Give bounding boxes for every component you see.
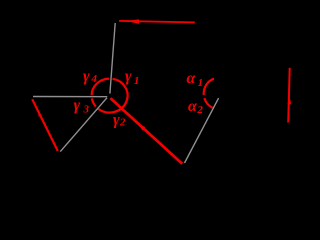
svg-text:α: α [187, 70, 197, 87]
svg-text:4: 4 [91, 73, 98, 85]
angle arc gamma bottom-right-top large segment [98, 79, 127, 113]
arrowhead on right line pointing up [288, 94, 292, 104]
wire: gray down-left ray from node V to point B [60, 98, 107, 152]
side: thick red ray from node V to point C [111, 98, 183, 164]
svg-text:γ: γ [113, 111, 120, 128]
side: red right vertical line [288, 68, 290, 123]
arrowhead on left line pointing up toward A [38, 111, 42, 117]
svg-text:2: 2 [196, 104, 203, 116]
angle arc gamma left segment [92, 98, 96, 106]
wire: gray line from point C up to vertex T [185, 98, 219, 163]
arrowhead on red ray pointing up-left [139, 124, 146, 131]
svg-text:1: 1 [134, 75, 140, 87]
svg-text:3: 3 [83, 104, 90, 116]
angle arc gamma top-left segment [92, 79, 110, 96]
side: red top horizontal line [119, 21, 195, 23]
angle arc alpha1 at vertex T [204, 79, 214, 95]
angle arc alpha2 at vertex T [204, 98, 212, 108]
wire: gray up ray from node V to start of top side [110, 23, 115, 94]
circle arcs around node V (angles gamma) [92, 79, 128, 113]
wire: gray left ray from node V to point A [33, 96, 107, 98]
svg-text:γ: γ [125, 68, 132, 85]
svg-text:γ: γ [83, 68, 90, 85]
side: red left line A to B [32, 99, 58, 151]
svg-text:2: 2 [119, 116, 126, 128]
svg-text:γ: γ [74, 97, 81, 114]
svg-text:1: 1 [198, 77, 204, 89]
arrowhead on top line pointing left [127, 19, 139, 24]
